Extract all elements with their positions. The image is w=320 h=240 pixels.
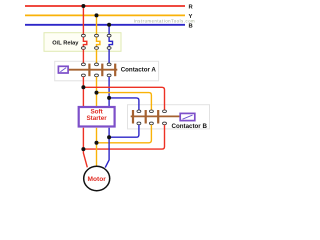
contactor A contact blade 1 <box>88 64 90 77</box>
O/L relay terminal circles <box>81 34 111 49</box>
wire Y phase contactor A to soft starter <box>96 77 98 107</box>
wire B bypass branch to contactor B <box>109 98 139 110</box>
junction Y motor line <box>95 141 99 145</box>
junction B bypass <box>107 96 111 100</box>
wire B soft starter to motor <box>105 128 109 168</box>
contactor A terminal circles <box>81 63 111 77</box>
wire Y phase O/L relay to contactor A <box>96 49 98 63</box>
bus R wire <box>25 5 185 7</box>
wire B contactor B bottom return <box>109 125 139 137</box>
junction R bypass <box>81 85 85 89</box>
contactor A contact blade 2 <box>101 64 103 77</box>
svg-text:O/L Relay: O/L Relay <box>52 41 79 47</box>
svg-text:InstrumentationTools.com: InstrumentationTools.com <box>134 18 196 23</box>
wire Y soft starter to motor <box>96 128 98 167</box>
svg-text:Contactor A: Contactor A <box>121 66 157 73</box>
svg-text:Starter: Starter <box>86 115 107 122</box>
wire R phase drop to O/L relay <box>82 6 84 34</box>
wire Y phase drop to O/L relay <box>96 15 98 34</box>
junction B motor line <box>107 135 111 139</box>
wire B phase O/L relay to contactor A <box>108 49 110 63</box>
wire B phase contactor A to soft starter <box>108 77 110 107</box>
contactor B terminal circles <box>137 110 167 125</box>
wire R contactor B bottom return <box>83 125 164 149</box>
wire Y bypass branch to contactor B <box>97 93 152 110</box>
contactor B contact blade 2 <box>145 110 147 124</box>
junction Y bypass <box>95 91 99 95</box>
bus Y wire <box>25 14 185 16</box>
junction on R bus <box>81 4 85 8</box>
O/L relay element B phase <box>109 37 112 47</box>
motor M1 <box>84 166 110 190</box>
bus B wire <box>25 24 185 26</box>
contactor A coil box <box>58 66 68 73</box>
contactor B group box <box>128 105 210 129</box>
junction on B bus <box>107 23 111 27</box>
contactor B linkage bar <box>131 115 181 117</box>
O/L relay element R phase <box>83 37 86 47</box>
contactor B contact blade 3 <box>157 110 159 124</box>
wire Y contactor B bottom return <box>97 125 152 143</box>
contactor A contact blade 3 <box>114 64 116 77</box>
contactor A group box <box>55 61 159 81</box>
wire R phase O/L relay to contactor A <box>82 49 84 63</box>
soft starter box U1 <box>79 107 115 127</box>
contactor A coil diagonal <box>60 68 66 72</box>
contactor B coil box <box>180 113 195 120</box>
svg-text:B: B <box>189 23 193 29</box>
O/L relay element Y phase <box>97 37 100 47</box>
svg-text:R: R <box>189 4 194 10</box>
svg-text:Contactor B: Contactor B <box>172 123 208 130</box>
contactor B contact blade 1 <box>132 110 134 124</box>
wire B phase drop to O/L relay <box>108 25 110 35</box>
wire R phase contactor A to soft starter <box>82 77 84 107</box>
O/L relay group box <box>44 33 121 52</box>
junction R motor line <box>81 147 85 151</box>
wire R soft starter to motor <box>83 128 87 168</box>
contactor B coil diagonal <box>183 115 193 119</box>
contactor A linkage bar <box>68 69 117 71</box>
junction on Y bus <box>95 13 99 17</box>
svg-text:Motor: Motor <box>88 176 107 183</box>
wire R bypass branch to contactor B <box>83 87 164 110</box>
